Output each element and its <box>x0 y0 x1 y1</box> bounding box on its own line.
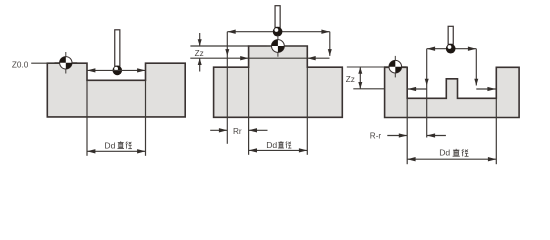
label R-r <box>370 132 382 141</box>
probe path line through ball middle <box>227 30 329 34</box>
boss top extension line <box>190 45 248 47</box>
probing level line with arrows at boss walls <box>190 56 329 60</box>
datum origin symbol middle <box>267 35 290 57</box>
svg-text:Zz: Zz <box>195 49 204 58</box>
dimension line Dd middle <box>249 148 308 152</box>
workpiece slotted block with rib right <box>385 67 519 117</box>
label Z0.0 <box>12 60 29 69</box>
svg-text:Dd: Dd <box>439 148 450 158</box>
workpiece boss block middle <box>214 46 343 117</box>
label Zz right-diagram <box>346 75 355 84</box>
probe path vertical right middle <box>328 32 332 56</box>
slot width measuring arrow line <box>87 68 146 72</box>
extension line slot right wall down <box>495 98 497 164</box>
datum origin symbol left <box>55 52 78 74</box>
dimension Zz right-diagram <box>358 67 362 89</box>
wall probing arrow right <box>476 87 496 91</box>
wall probing arrow left <box>407 87 427 91</box>
Zz extension line top right-diagram <box>347 66 385 68</box>
label Dd diameter middle <box>266 140 291 150</box>
leader wire from Z0.0 to datum <box>31 62 59 64</box>
label Zz middle <box>195 49 204 58</box>
label Dd diameter right-diagram <box>439 148 468 158</box>
extension line from right slot wall <box>145 80 147 156</box>
svg-text:Dd: Dd <box>104 140 115 150</box>
probe path line through ball right <box>427 47 477 51</box>
dimension line Dd right-diagram <box>407 157 496 161</box>
probe path vertical left right-diagram <box>425 49 429 138</box>
stylus shaft right <box>448 26 453 44</box>
workpiece slotted block left <box>47 63 185 117</box>
extension line boss right edge down <box>306 67 308 155</box>
svg-text:Dd: Dd <box>266 140 277 150</box>
stylus shaft left <box>115 30 120 66</box>
extension line slot left wall down <box>406 98 408 164</box>
label Rr middle <box>233 127 242 136</box>
dimension Rr middle <box>210 128 267 132</box>
stylus ball left <box>113 66 123 76</box>
probe path vertical right right-diagram <box>474 49 478 86</box>
svg-text:Rr: Rr <box>233 127 242 136</box>
extension line from left slot wall <box>86 80 88 156</box>
label Dd diameter left <box>104 140 132 150</box>
dimension Zz middle <box>198 33 202 72</box>
dimension R-r right-diagram <box>387 133 446 137</box>
stylus ball middle <box>273 27 283 37</box>
probe path vertical left middle <box>225 32 229 144</box>
datum origin symbol right <box>384 56 407 78</box>
Zz extension line bottom right-diagram <box>353 88 384 90</box>
dimension line Dd left <box>87 149 146 153</box>
svg-text:R-r: R-r <box>370 132 382 141</box>
stylus shaft middle <box>275 6 280 28</box>
svg-text:Z0.0: Z0.0 <box>12 60 29 69</box>
svg-text:Zz: Zz <box>346 75 355 84</box>
stylus ball right <box>446 44 456 54</box>
extension line boss left edge down <box>248 67 250 155</box>
